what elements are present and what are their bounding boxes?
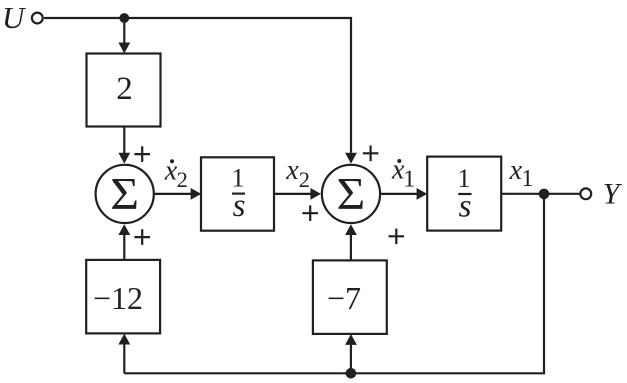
arrowhead into summer S2 top — [345, 153, 357, 164]
summer S2 — [322, 165, 380, 223]
arrowhead into summer S2 bottom — [345, 224, 357, 235]
svg-text:1: 1 — [521, 166, 533, 192]
svg-text:−12: −12 — [93, 280, 143, 316]
svg-text:1: 1 — [403, 167, 415, 193]
svg-text:s: s — [459, 189, 472, 225]
junction dot at bottom feedback — [346, 368, 357, 379]
arrowhead into block 2 — [118, 43, 130, 54]
wire U to top corner — [44, 18, 351, 153]
svg-text:−7: −7 — [327, 280, 361, 316]
wire block 2 to summer S1 — [123, 127, 125, 154]
svg-text:Σ: Σ — [336, 170, 365, 219]
plus sign at summer S2 left — [302, 205, 318, 221]
svg-text:2: 2 — [299, 167, 310, 192]
arrowhead into summer S1 bottom — [118, 224, 130, 235]
junction dot at top wire — [119, 13, 129, 23]
wire bottom up into block -12 — [123, 344, 125, 373]
wire feedback from output node down and across bottom — [124, 194, 544, 373]
fraction bar integrator 2 — [458, 193, 471, 195]
wire block -12 to summer S1 bottom — [123, 235, 125, 260]
block gain -12 — [86, 260, 160, 334]
arrowhead into summer S1 top — [118, 153, 130, 164]
arrowhead into integrator 1 — [191, 188, 202, 200]
plus sign at summer S1 bottom — [134, 229, 150, 245]
wire summer S2 to integrator 2 — [381, 193, 418, 195]
wire integrator 2 to output terminal Y — [501, 193, 580, 195]
summer S1 — [96, 165, 154, 223]
svg-text:2: 2 — [177, 167, 188, 192]
block integrator 1 (1/s) — [201, 157, 274, 230]
fraction bar integrator 1 — [232, 193, 245, 195]
block gain -7 — [313, 260, 387, 334]
arrowhead into block -12 bottom — [118, 334, 130, 345]
plus sign at summer S1 top — [134, 146, 150, 162]
svg-text:Σ: Σ — [110, 170, 139, 219]
wire bottom junction up into block -7 — [350, 345, 352, 374]
svg-text:x: x — [285, 155, 299, 186]
svg-text:U: U — [2, 0, 27, 35]
svg-text:Y: Y — [603, 178, 623, 211]
block gain 2 — [87, 54, 161, 127]
plus sign at summer S2 bottom — [389, 229, 405, 245]
node U input terminal — [32, 13, 43, 24]
wire summer S1 to integrator block — [154, 193, 191, 195]
wire block -7 to summer S2 bottom — [350, 235, 352, 261]
wire integrator 1 to summer S2 — [274, 193, 311, 195]
wire junction dot to block 2 — [123, 18, 125, 43]
plus sign at summer S2 top — [363, 146, 379, 162]
arrowhead into block -7 bottom — [345, 334, 357, 345]
arrowhead into integrator 2 — [417, 188, 428, 200]
svg-text:s: s — [233, 188, 246, 224]
arrowhead into summer S2 left — [310, 188, 321, 200]
block integrator 2 (1/s) — [427, 157, 501, 231]
svg-text:2: 2 — [116, 71, 133, 107]
junction dot at output node — [539, 189, 550, 200]
output terminal Y circle — [580, 188, 591, 199]
